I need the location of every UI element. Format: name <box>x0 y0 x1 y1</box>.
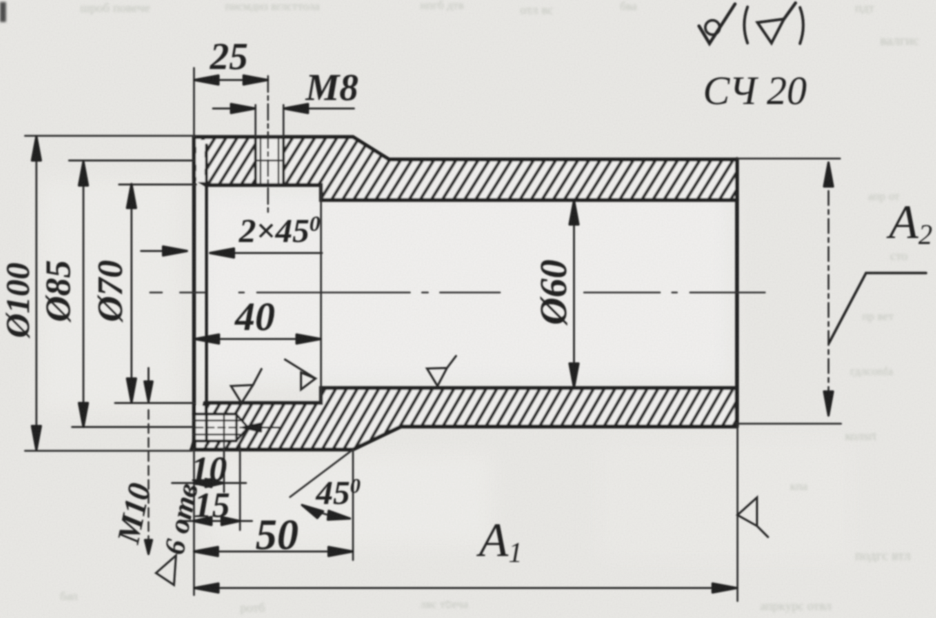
svg-text:гдлconfa: гдлconfa <box>850 364 894 378</box>
svg-text:СЧ 20: СЧ 20 <box>703 68 807 113</box>
svg-text:отл вс: отл вс <box>520 2 553 17</box>
svg-text:Ø60: Ø60 <box>533 260 575 326</box>
svg-text:колsrt: колsrt <box>845 428 877 443</box>
svg-text:2×450: 2×450 <box>238 211 320 250</box>
svg-text:Ø85: Ø85 <box>38 260 78 323</box>
svg-text:нпгб дтв: нпгб дтв <box>420 0 464 12</box>
svg-text:апр от: апр от <box>868 189 900 203</box>
svg-text:писмднз вглсттола: писмднз вглсттола <box>225 0 320 13</box>
svg-text:сто: сто <box>890 248 908 263</box>
svg-text:апркурс отвл: апркурс отвл <box>760 598 832 613</box>
svg-text:валгис: валгис <box>880 34 919 49</box>
svg-text:50: 50 <box>256 512 299 559</box>
svg-text:подгс втл: подгс втл <box>855 549 911 564</box>
svg-text:Ø100: Ø100 <box>0 262 37 339</box>
svg-text:кпа: кпа <box>790 479 808 493</box>
svg-text:пдт: пдт <box>855 0 875 15</box>
svg-text:шроб повече: шроб повече <box>80 0 150 15</box>
svg-text:25: 25 <box>209 36 248 78</box>
svg-text:М8: М8 <box>305 67 359 109</box>
svg-text:лвс тסеча: лвс тסеча <box>420 597 469 611</box>
svg-text:40: 40 <box>234 294 275 339</box>
svg-text:ротб: ротб <box>240 600 266 615</box>
svg-text:пр вет: пр вет <box>862 309 894 323</box>
svg-text:Ø70: Ø70 <box>90 260 130 323</box>
svg-text:бва: бва <box>620 0 638 13</box>
svg-text:бап: бап <box>60 589 78 603</box>
